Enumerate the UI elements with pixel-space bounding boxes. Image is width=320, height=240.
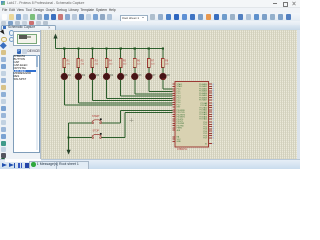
svg-text:R3: R3: [95, 60, 99, 63]
svg-text:220: 220: [81, 64, 85, 66]
svg-text:STOP: STOP: [93, 129, 100, 132]
svg-text:220: 220: [67, 64, 71, 66]
svg-text:D7: D7: [152, 74, 156, 77]
svg-text:START: START: [92, 115, 100, 118]
svg-text:D4: D4: [110, 74, 114, 77]
svg-text:220: 220: [109, 64, 113, 66]
svg-text:D6: D6: [138, 74, 142, 77]
svg-text:U1: U1: [162, 77, 166, 81]
svg-text:R7: R7: [151, 60, 155, 63]
svg-text:220: 220: [123, 64, 127, 66]
svg-text:D8: D8: [167, 74, 171, 77]
svg-text:R6: R6: [137, 60, 141, 63]
svg-text:R4: R4: [109, 60, 113, 63]
svg-text:D3: D3: [96, 74, 100, 77]
svg-text:P0.7/AD7: P0.7/AD7: [199, 99, 207, 102]
svg-text:GND: GND: [177, 141, 182, 143]
svg-text:P2.7/A15: P2.7/A15: [199, 118, 207, 121]
svg-text:X1: X1: [205, 143, 207, 145]
svg-text:R1: R1: [67, 60, 71, 63]
svg-text:R2: R2: [81, 60, 85, 63]
svg-text:R5: R5: [123, 60, 127, 63]
svg-text:D2: D2: [82, 74, 86, 77]
svg-text:220: 220: [137, 64, 141, 66]
svg-text:220: 220: [165, 64, 169, 66]
svg-text:P3.7: P3.7: [203, 138, 207, 140]
svg-text:R8: R8: [165, 60, 169, 63]
svg-text:220: 220: [95, 64, 99, 66]
svg-text:220: 220: [151, 64, 155, 66]
svg-text:D5: D5: [124, 74, 128, 77]
svg-text:AT89C51: AT89C51: [177, 148, 188, 151]
svg-text:D1: D1: [68, 74, 72, 77]
